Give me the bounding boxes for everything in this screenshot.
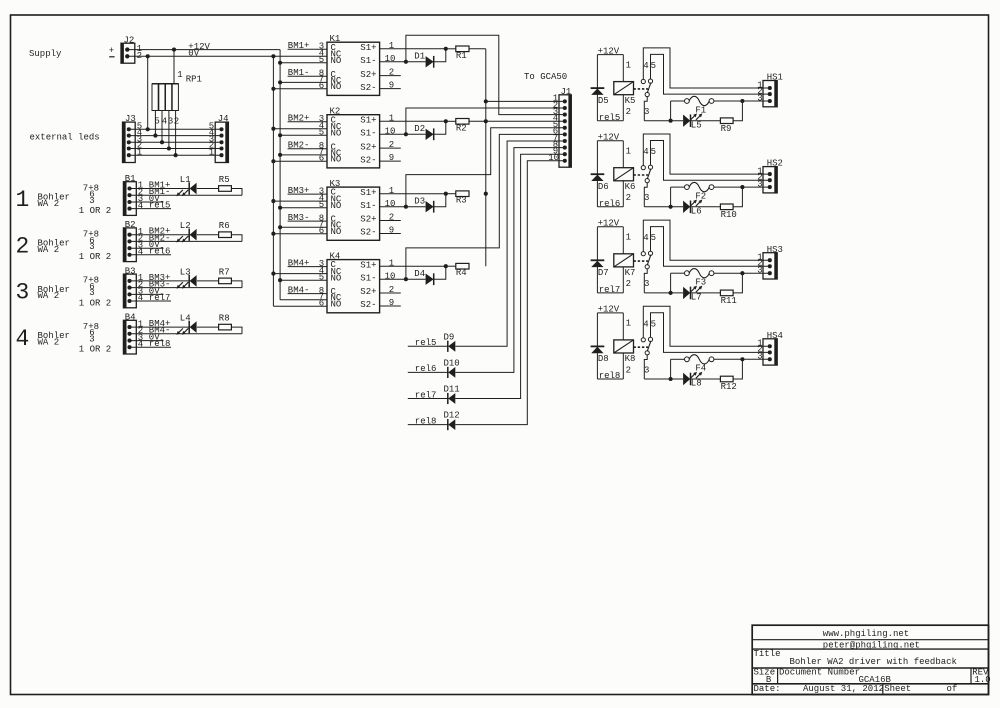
wire feedback rail K8 <box>644 359 684 381</box>
annotation pin guide (2) <box>79 230 111 263</box>
svg-text:3: 3 <box>89 334 94 344</box>
svg-text:R5: R5 <box>219 175 230 185</box>
svg-text:To GCA50: To GCA50 <box>524 72 567 82</box>
svg-text:NO: NO <box>331 274 342 284</box>
svg-text:HS2: HS2 <box>767 159 783 169</box>
svg-text:S1-: S1- <box>360 201 376 211</box>
net label BM4+ <box>149 319 171 329</box>
contact terminals K8 <box>641 319 656 375</box>
net label rel5 (D9) <box>415 338 437 348</box>
wire +12V to K2 pin7 <box>278 153 327 157</box>
svg-text:4: 4 <box>643 61 648 71</box>
label Supply <box>29 49 62 59</box>
svg-text:3: 3 <box>16 280 30 306</box>
wire +12V to RP1 pin1 <box>173 50 175 84</box>
wire contact 5 to HS1 pin2 <box>651 54 770 94</box>
svg-text:D5: D5 <box>598 96 609 106</box>
wire +12V trunk <box>279 50 281 300</box>
svg-text:9: 9 <box>389 81 394 91</box>
net label BM1- <box>149 187 171 197</box>
wire K2 S2- stub <box>380 160 401 162</box>
net label rel6 (B2) <box>149 247 171 257</box>
svg-text:of: of <box>947 684 958 694</box>
wire D4 route to J1 row6 <box>406 134 565 279</box>
svg-text:D8: D8 <box>598 354 609 364</box>
wire D10 to J1 row8 <box>455 148 564 373</box>
connector HS3 <box>757 245 783 279</box>
annotation number 2 <box>16 233 30 259</box>
fuse F1 <box>685 96 714 115</box>
LED L6 <box>683 200 702 217</box>
svg-text:WA 2: WA 2 <box>38 337 60 347</box>
wire K1 S1- route to J1 row3 <box>406 35 565 114</box>
K3 right pin numbers <box>385 186 396 236</box>
wire contact 4 to HS3 pin1 <box>643 220 770 260</box>
wire B4 pin3 stub <box>130 340 164 342</box>
svg-text:2: 2 <box>389 213 394 223</box>
junction 0V at x148 <box>146 54 150 58</box>
wire RP1 r1 to row4 <box>153 111 157 138</box>
net label BM4- <box>149 326 171 336</box>
wire LED to R6 <box>197 234 219 236</box>
LED L5 <box>683 113 702 130</box>
size value B <box>766 675 772 685</box>
wire D3 route to J1 row5 <box>406 128 565 207</box>
svg-text:3: 3 <box>89 288 94 298</box>
net label BM4+ (K4) <box>288 258 310 268</box>
svg-text:S1+: S1+ <box>360 116 376 126</box>
document number GCA16B <box>859 675 892 685</box>
svg-text:K6: K6 <box>625 182 636 192</box>
svg-text:1: 1 <box>16 187 30 213</box>
coil-contact link K7 <box>634 260 649 262</box>
wire +12V to K2 pin5 <box>278 133 327 137</box>
wire B3 pin1 to LED <box>130 280 190 282</box>
wire B3 pin3 stub <box>130 293 164 295</box>
resistor R3 <box>446 191 469 206</box>
wire D4 cathode up <box>434 266 446 279</box>
net label BM3- (K3) <box>288 213 310 223</box>
wire +12V to K4 pin7 <box>280 299 327 301</box>
wire B1 pin1 to LED <box>130 188 190 190</box>
svg-text:peter@phgiling.net: peter@phgiling.net <box>823 640 920 650</box>
svg-text:R7: R7 <box>219 267 230 277</box>
wire B1 pin2 return <box>130 194 243 196</box>
sheet label <box>884 684 911 694</box>
svg-text:9: 9 <box>389 298 394 308</box>
K5 coil pin 2 <box>626 107 631 117</box>
svg-text:J1: J1 <box>561 87 572 97</box>
svg-text:NO: NO <box>331 201 342 211</box>
size label <box>754 668 776 678</box>
svg-text:10: 10 <box>385 199 396 209</box>
svg-text:1 OR 2: 1 OR 2 <box>79 252 111 262</box>
net label BM2- (K2) <box>288 141 310 151</box>
diode D5 <box>591 88 609 106</box>
diode D9 <box>444 332 456 352</box>
title block Title label <box>754 649 781 659</box>
relay K3 <box>327 179 380 240</box>
wire D3 cathode up <box>434 194 446 207</box>
resistor R11 <box>720 290 736 306</box>
wire 0V to K3 pin4 <box>271 199 327 203</box>
svg-text:J2: J2 <box>124 35 135 45</box>
svg-text:K7: K7 <box>625 268 636 278</box>
title block url <box>823 629 909 639</box>
net label BM3+ <box>149 273 171 283</box>
wire K1 S2- stub <box>380 88 401 90</box>
junction at J3 row5 <box>146 127 150 131</box>
K5 coil pin 1 <box>626 60 631 70</box>
svg-text:WA 2: WA 2 <box>38 199 60 209</box>
svg-text:D12: D12 <box>444 411 460 421</box>
junction trunk at J1 row1 <box>484 99 488 103</box>
wire contact 3 down <box>644 269 647 293</box>
svg-text:1: 1 <box>177 70 182 80</box>
resistor R5 <box>219 175 232 191</box>
K7 coil pin 2 <box>626 279 631 289</box>
wire feedback rail K5 <box>644 101 684 123</box>
svg-text:R11: R11 <box>721 296 737 306</box>
wire BM1- to K1 pin8 <box>288 75 327 77</box>
net label BM4- (K4) <box>288 285 310 295</box>
diode D2 <box>414 124 433 140</box>
svg-text:2: 2 <box>174 117 179 127</box>
relay coil K8 <box>614 340 636 364</box>
svg-text:L5: L5 <box>691 120 702 130</box>
svg-text:3: 3 <box>757 352 762 362</box>
svg-text:3: 3 <box>89 196 94 206</box>
wire D12 to J1 row10 <box>455 161 564 425</box>
annotation number 4 <box>16 326 30 352</box>
fuse F3 <box>685 269 714 288</box>
wire R8 wraparound <box>231 327 242 334</box>
net label rel5 (B1) <box>149 201 171 211</box>
wire K3 S1- output <box>380 205 426 209</box>
junction R3 at trunk <box>484 192 488 196</box>
net label rel6 (D10) <box>415 364 437 374</box>
wire LED to R8 <box>197 326 219 328</box>
wire B4 pin4 stub <box>130 346 172 348</box>
annotation number 1 <box>16 187 30 213</box>
wire R11 up to fuse row <box>733 271 744 293</box>
wire rel6 to D10 <box>408 371 448 373</box>
svg-text:2: 2 <box>389 68 394 78</box>
svg-text:S2+: S2+ <box>360 70 376 80</box>
svg-text:J4: J4 <box>218 114 229 124</box>
wire 0V to K2 pin6 <box>271 159 327 163</box>
junction 0V at trunk <box>271 54 275 58</box>
svg-text:R8: R8 <box>219 314 230 324</box>
wire contact 3 down <box>644 97 647 121</box>
wire LED to R7 <box>197 280 219 282</box>
wire B2 pin3 stub <box>130 247 164 249</box>
svg-text:S2+: S2+ <box>360 142 376 152</box>
net label BM2+ <box>149 227 171 237</box>
wire +12V to K4 pin5 <box>278 278 327 282</box>
wire R10 up to fuse row <box>733 185 744 207</box>
wire BM1+ to K1 pin3 <box>288 48 327 50</box>
svg-text:external leds: external leds <box>30 133 100 143</box>
svg-text:B1: B1 <box>125 174 136 184</box>
svg-text:RP1: RP1 <box>186 75 202 85</box>
svg-text:10: 10 <box>385 126 396 136</box>
title block <box>752 625 988 694</box>
K1 right pin numbers <box>385 41 396 91</box>
wire feedback rail K7 <box>644 273 684 295</box>
net label rel5 <box>599 113 621 123</box>
svg-text:1 OR 2: 1 OR 2 <box>79 345 111 355</box>
svg-text:2: 2 <box>626 365 631 375</box>
LED L1 <box>176 175 196 196</box>
annotation Bohler WA 2 (1) <box>38 193 70 209</box>
relay K4 <box>327 252 380 313</box>
svg-text:S1-: S1- <box>360 273 376 283</box>
power label +12V (3) <box>598 219 620 229</box>
wire K2 S1+ output <box>380 119 448 123</box>
svg-text:1.0: 1.0 <box>975 675 991 685</box>
wire RP1 r2 to row3 <box>160 111 164 145</box>
svg-text:WA 2: WA 2 <box>38 245 60 255</box>
resistor pack RP1 <box>152 70 202 110</box>
net label BM3+ (K3) <box>288 186 310 196</box>
svg-text:R2: R2 <box>456 123 467 133</box>
contact terminals K7 <box>641 233 656 289</box>
diode D12 <box>444 411 460 431</box>
rev label <box>972 668 989 678</box>
svg-text:R10: R10 <box>721 210 737 220</box>
LED L3 <box>176 267 196 288</box>
svg-text:Document Number: Document Number <box>779 668 860 678</box>
svg-text:9: 9 <box>389 226 394 236</box>
wire K4 S1- output <box>380 277 426 281</box>
wire rel5 to D9 <box>408 345 448 347</box>
title block email <box>823 640 920 650</box>
svg-text:D11: D11 <box>444 385 460 395</box>
wire fuse to HS3 pin3 <box>714 272 770 274</box>
wire BM2- to K2 pin8 <box>288 148 327 150</box>
annotation Bohler WA 2 (3) <box>38 285 70 301</box>
svg-text:1: 1 <box>389 113 394 123</box>
diode D11 <box>444 385 460 405</box>
connector B4 <box>123 313 143 354</box>
svg-text:D7: D7 <box>598 268 609 278</box>
svg-text:F2: F2 <box>695 191 706 201</box>
svg-text:5: 5 <box>651 61 656 71</box>
document number label <box>779 668 860 678</box>
svg-text:1: 1 <box>389 258 394 268</box>
connector J3 <box>123 114 143 162</box>
svg-text:D9: D9 <box>444 332 455 342</box>
wire B1 pin3 stub <box>130 201 164 203</box>
wire fuse to HS2 pin3 <box>714 186 770 188</box>
resistor R12 <box>720 376 736 392</box>
svg-text:3: 3 <box>644 279 649 289</box>
wire B4 pin1 to LED <box>130 326 190 328</box>
wire RP1 r4 to row1 <box>174 111 178 158</box>
wire coil loop K7 <box>597 227 623 293</box>
wire rel8 to D12 <box>408 424 448 426</box>
svg-text:1: 1 <box>389 41 394 51</box>
power label +12V (4) <box>598 305 620 315</box>
connector HS2 <box>757 159 783 193</box>
svg-text:L4: L4 <box>180 314 191 324</box>
svg-text:1 OR 2: 1 OR 2 <box>79 206 111 216</box>
svg-text:10: 10 <box>385 271 396 281</box>
wire 0V to K3 pin6 <box>271 232 327 236</box>
connector B3 <box>123 266 143 307</box>
wire +12V to K3 pin5 <box>278 206 327 210</box>
net label 0V (B3) <box>149 286 160 296</box>
svg-text:D1: D1 <box>414 51 425 61</box>
net label 0V (B4) <box>149 333 160 343</box>
date value <box>803 684 884 694</box>
LED L4 <box>176 314 196 335</box>
wire 0V trunk <box>272 56 274 306</box>
svg-text:www.phgiling.net: www.phgiling.net <box>823 629 909 639</box>
K7 coil pin 1 <box>626 233 631 243</box>
label To GCA50 <box>524 72 567 82</box>
J2 pin 2 <box>125 51 142 61</box>
svg-text:4: 4 <box>643 147 648 157</box>
junction on +12V at RP1 drop <box>172 48 176 52</box>
svg-text:3: 3 <box>89 242 94 252</box>
svg-text:NO: NO <box>331 227 342 237</box>
diode D6 <box>591 174 609 192</box>
connector HS4 <box>757 331 783 365</box>
svg-text:4: 4 <box>162 117 167 127</box>
resistor R6 <box>219 221 232 237</box>
svg-text:D2: D2 <box>414 124 425 134</box>
wire B4 pin2 return <box>130 333 243 335</box>
wire BM3+ to K3 pin3 <box>288 193 327 195</box>
svg-text:1: 1 <box>626 147 631 157</box>
wire K2 route to J1 row2 <box>406 108 565 134</box>
annotation Bohler WA 2 (2) <box>38 239 70 255</box>
svg-text:J3: J3 <box>125 114 136 124</box>
net label rel8 (D12) <box>415 416 437 426</box>
wire R6 wraparound <box>231 235 242 242</box>
svg-text:K5: K5 <box>625 96 636 106</box>
wire K4 S2+ stub <box>380 292 401 294</box>
fuse F4 <box>685 355 714 374</box>
wire R9 up to fuse row <box>733 99 744 121</box>
title text <box>790 657 957 667</box>
relay K1 <box>327 34 380 95</box>
wire 0V to K1 pin6 <box>271 87 327 91</box>
contact terminals K6 <box>641 147 656 203</box>
K2 right pin numbers <box>385 113 396 163</box>
svg-text:S2+: S2+ <box>360 287 376 297</box>
svg-text:5: 5 <box>651 233 656 243</box>
K3 left pin numbers <box>319 186 324 236</box>
wire contact 3 down <box>644 355 647 379</box>
svg-text:3: 3 <box>644 365 649 375</box>
svg-text:S2-: S2- <box>360 83 376 93</box>
diode D4 <box>414 269 433 285</box>
svg-text:L2: L2 <box>180 221 191 231</box>
contact terminals K5 <box>641 61 656 117</box>
wire K2 S2+ stub <box>380 147 401 149</box>
diode D8 <box>591 346 609 364</box>
diode D10 <box>444 359 460 379</box>
wire coil loop K5 <box>597 55 623 121</box>
connector J1 <box>548 87 571 167</box>
svg-text:Sheet: Sheet <box>884 684 911 694</box>
wire contact 5 to HS3 pin2 <box>651 227 770 267</box>
connector J2 <box>121 35 135 63</box>
wire +12V to K1 pin7 <box>278 80 327 84</box>
svg-text:S2-: S2- <box>360 300 376 310</box>
net label BM1+ <box>149 180 171 190</box>
svg-text:rel6: rel6 <box>599 199 621 209</box>
wire K1 S2+ stub <box>380 75 401 77</box>
svg-text:1: 1 <box>626 233 631 243</box>
connector J4 <box>209 114 229 162</box>
label 0V <box>188 48 199 58</box>
svg-text:L3: L3 <box>180 267 191 277</box>
net label BM3- <box>149 280 171 290</box>
svg-text:NO: NO <box>331 56 342 66</box>
svg-text:F1: F1 <box>695 105 706 115</box>
svg-text:NO: NO <box>331 300 342 310</box>
svg-text:Size: Size <box>754 668 776 678</box>
coil-contact link K6 <box>634 174 649 176</box>
wire contact 4 to HS1 pin1 <box>643 48 770 88</box>
wire K3 S1+ output <box>380 192 448 196</box>
wire K2 S1- output <box>380 132 426 136</box>
annotation Bohler WA 2 (4) <box>38 331 70 347</box>
wire D2 cathode up <box>434 121 446 134</box>
svg-text:L7: L7 <box>691 293 702 303</box>
net label 0V (B2) <box>149 240 160 250</box>
svg-text:1: 1 <box>389 186 394 196</box>
svg-text:F3: F3 <box>695 278 706 288</box>
svg-text:D6: D6 <box>598 182 609 192</box>
svg-text:F4: F4 <box>695 364 706 374</box>
diode D7 <box>591 260 609 278</box>
wire BM3- to K3 pin8 <box>288 220 327 222</box>
wire contact 4 to HS2 pin1 <box>643 134 770 174</box>
svg-text:1 OR 2: 1 OR 2 <box>79 298 111 308</box>
wire R7 wraparound <box>231 281 242 288</box>
wire contact 5 to HS4 pin2 <box>651 313 770 353</box>
net label rel8 (B4) <box>149 339 171 349</box>
label external leds <box>30 133 100 143</box>
wire contact 4 to HS4 pin1 <box>643 306 770 346</box>
svg-text:2: 2 <box>389 285 394 295</box>
wire LED to R9 <box>691 120 721 122</box>
wire fuse to HS1 pin3 <box>714 100 770 102</box>
annotation pin guide (4) <box>79 322 111 355</box>
svg-text:D4: D4 <box>414 269 425 279</box>
svg-text:5: 5 <box>651 147 656 157</box>
svg-text:Supply: Supply <box>29 49 62 59</box>
wire +12V to K1 pin5 <box>278 61 327 65</box>
net label 0V (B1) <box>149 194 160 204</box>
svg-text:2: 2 <box>626 107 631 117</box>
svg-text:L8: L8 <box>691 379 702 389</box>
svg-text:rel7: rel7 <box>599 285 621 295</box>
svg-text:3: 3 <box>757 93 762 103</box>
svg-text:WA 2: WA 2 <box>38 291 60 301</box>
svg-text:R1: R1 <box>456 51 467 61</box>
svg-text:R6: R6 <box>219 221 230 231</box>
wire K3 S2+ stub <box>380 220 401 222</box>
K4 left pin numbers <box>319 259 324 309</box>
relay coil K7 <box>614 254 636 278</box>
svg-text:3: 3 <box>757 179 762 189</box>
